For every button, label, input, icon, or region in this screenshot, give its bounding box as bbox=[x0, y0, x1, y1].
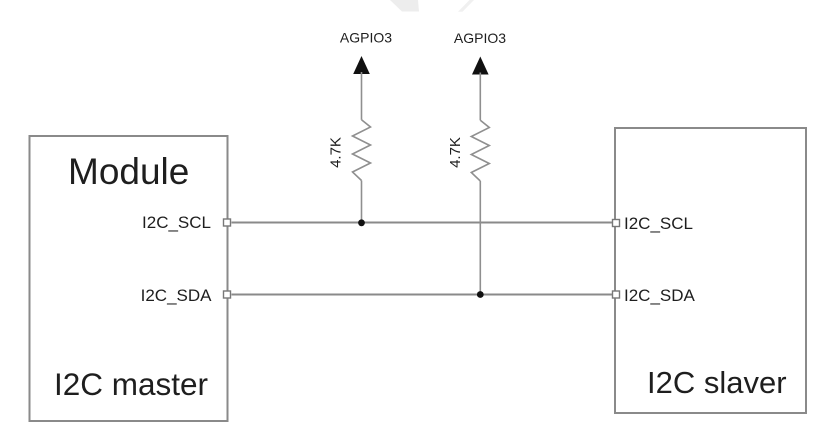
pin square module I2C_SCL bbox=[224, 219, 231, 226]
pin square slave I2C_SCL bbox=[613, 220, 620, 227]
svg-text:4.7K: 4.7K bbox=[447, 137, 464, 168]
module box U1 (I2C master) bbox=[30, 136, 228, 421]
svg-text:I2C_SDA: I2C_SDA bbox=[141, 286, 213, 305]
wire stem pullup 1 (arrow to resistor) bbox=[361, 72, 363, 120]
svg-text:I2C_SCL: I2C_SCL bbox=[624, 214, 693, 233]
pin square module I2C_SDA bbox=[224, 291, 231, 298]
svg-text:I2C master: I2C master bbox=[54, 366, 208, 402]
svg-text:I2C_SCL: I2C_SCL bbox=[142, 213, 211, 232]
svg-text:AGPIO3: AGPIO3 bbox=[454, 30, 506, 46]
wire stem pullup 2 (arrow to resistor) bbox=[479, 73, 481, 121]
wire pullup 1 (resistor to SCL net) bbox=[361, 181, 363, 223]
svg-text:Module: Module bbox=[68, 151, 189, 192]
resistor R1 4.7K (zigzag) bbox=[353, 120, 371, 181]
pin square slave I2C_SDA bbox=[613, 291, 620, 298]
watermark fragment bbox=[390, 0, 474, 12]
wire net I2C_SDA bbox=[232, 294, 613, 296]
wire pullup 2 (resistor through SCL to SDA net) bbox=[479, 181, 481, 295]
power symbol AGPIO3 (arrow, pullup 2) bbox=[472, 57, 489, 75]
svg-text:I2C slaver: I2C slaver bbox=[647, 365, 787, 400]
svg-text:I2C_SDA: I2C_SDA bbox=[624, 286, 696, 305]
svg-text:4.7K: 4.7K bbox=[328, 137, 345, 168]
power symbol AGPIO3 (arrow, pullup 1) bbox=[353, 56, 370, 74]
junction dot on SDA net bbox=[477, 291, 484, 298]
slave box U2 (I2C slaver) bbox=[615, 128, 806, 413]
junction dot on SCL net bbox=[358, 219, 365, 226]
svg-text:AGPIO3: AGPIO3 bbox=[340, 30, 392, 46]
wire net I2C_SCL bbox=[232, 222, 613, 224]
resistor R2 4.7K (zigzag) bbox=[471, 120, 489, 181]
